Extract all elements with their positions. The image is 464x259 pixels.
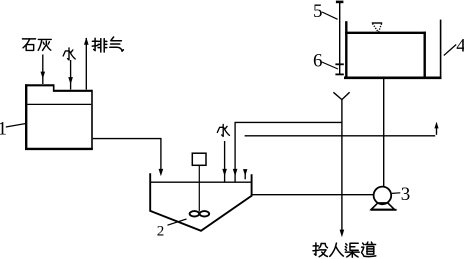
text 投入渠道 : 道 xyxy=(362,242,376,256)
pipe tank 1 to tank 2 xyxy=(93,139,161,171)
water dosing arrow into tank 2 xyxy=(222,141,227,182)
svg-text:2: 2 xyxy=(157,223,165,239)
tank 1 inner divider line xyxy=(27,103,91,105)
text 石灰 (lime) : 灰 xyxy=(38,39,51,50)
text 投入渠道 : 渠 xyxy=(345,243,359,257)
pump 3 casing xyxy=(374,187,392,205)
mixer shaft xyxy=(198,165,200,211)
tank 4 outer right wall xyxy=(440,20,442,78)
arrow into tank 2 from tank 1 xyxy=(159,169,164,176)
water level symbol ▽ xyxy=(372,23,382,32)
tank 1 (slaker) outline xyxy=(25,84,93,150)
mixer motor xyxy=(192,153,206,165)
label 4 leader line xyxy=(444,45,456,56)
pipe tank 2 to pump 3 xyxy=(252,194,374,196)
tank 2 (mixing tank) outline xyxy=(150,173,251,231)
tank 2 liquid level line xyxy=(150,181,251,183)
text 排气 (exhaust) : 排 xyxy=(92,38,107,52)
label 5 leader line xyxy=(322,12,338,19)
svg-text:5: 5 xyxy=(313,1,323,22)
text 水 (water, top) xyxy=(63,48,75,60)
tank 4 (solution tank) inner vessel xyxy=(345,21,426,77)
svg-text:6: 6 xyxy=(313,50,323,71)
funnel xyxy=(333,92,349,99)
fitting 6 tick marks xyxy=(335,64,343,74)
label 6 leader line xyxy=(322,62,338,69)
funnel stem / discharge pipe xyxy=(341,100,343,231)
short arrow from line B into tank 2 xyxy=(243,169,247,179)
tank 4 bottom xyxy=(344,77,442,80)
gauge pipe top cap xyxy=(336,1,344,4)
text 水 (water, middle) xyxy=(217,124,229,136)
impeller blades xyxy=(190,211,210,216)
svg-text:3: 3 xyxy=(401,184,411,205)
water line B (overflow) xyxy=(245,135,436,137)
discharge arrow (down) xyxy=(340,230,345,238)
svg-text:1: 1 xyxy=(0,119,7,140)
text 投入渠道 (feed into channel) : 投 xyxy=(313,243,327,257)
text 石灰 (lime) : 石 xyxy=(22,39,35,51)
text 投入渠道 : 入 xyxy=(330,243,344,256)
label 3 leader line xyxy=(392,192,400,195)
small up arrow at right end of line B xyxy=(434,122,438,135)
label 2 leader line xyxy=(168,219,187,225)
lime feed arrow into tank 1 xyxy=(41,55,46,85)
label 1 leader line xyxy=(6,124,25,127)
text 排气 (exhaust) : 气 xyxy=(110,37,124,51)
level gauge pipe (tank 4, left) xyxy=(339,2,341,75)
drain pipe tank 4 to pump xyxy=(383,79,385,187)
exhaust vent arrow (up) xyxy=(84,37,89,89)
water line A (to funnel) with arrow into tank 2 xyxy=(233,122,342,181)
water feed arrow into tank 1 xyxy=(68,60,73,90)
pump 3 base xyxy=(371,203,394,210)
svg-text:4: 4 xyxy=(456,36,464,57)
